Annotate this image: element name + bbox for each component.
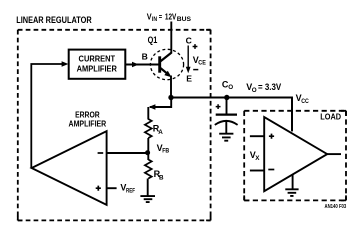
svg-text:IN: IN	[152, 16, 157, 23]
label V0 = 3.3V	[246, 82, 281, 94]
feedback tap: down from emitter node	[150, 98, 171, 108]
svg-text:B: B	[142, 52, 148, 62]
transistor Q1 base bar	[158, 56, 161, 72]
svg-text:E: E	[186, 74, 192, 84]
label RA	[153, 123, 164, 136]
wire: error amplifier output up and right to current amplifier input	[31, 64, 66, 168]
annotation plus sign (VCE)	[193, 44, 198, 49]
svg-text:LOAD: LOAD	[320, 112, 341, 122]
transistor Q1 emitter arrowhead	[164, 71, 171, 78]
ground under RB	[140, 196, 155, 202]
junction dot emitter/rail	[168, 95, 173, 100]
svg-text:AMPLIFIER: AMPLIFIER	[69, 119, 107, 129]
node VFB dot	[145, 150, 150, 155]
label VCE	[193, 55, 206, 67]
output rail to VCC corner	[171, 98, 292, 132]
svg-text:AN140 F03: AN140 F03	[325, 204, 347, 210]
svg-text:O: O	[228, 84, 233, 91]
current amplifier block	[69, 50, 126, 79]
VREF stub	[107, 187, 117, 189]
svg-text:B: B	[159, 174, 164, 181]
load box corner ticks	[244, 111, 346, 201]
wire RA to VFB node	[147, 138, 149, 154]
outer box corner ticks	[18, 30, 211, 221]
arrowhead into current amplifier	[62, 61, 69, 67]
capacitor C0 stem	[226, 98, 228, 114]
svg-text:=: =	[159, 12, 162, 22]
VCE arrow line	[187, 46, 189, 68]
transistor Q1 emitter diagonal	[160, 68, 169, 75]
wire RB to ground	[147, 179, 149, 196]
VCE arrowhead	[186, 67, 191, 74]
svg-text:LINEAR REGULATOR: LINEAR REGULATOR	[16, 15, 92, 25]
feedback tap arrowhead (points left)	[149, 104, 156, 110]
annotation minus sign (VCE)	[193, 69, 198, 71]
label VFB	[157, 143, 170, 155]
resistor RA	[145, 119, 152, 138]
load amp plus input stub	[250, 135, 264, 137]
svg-text:12V: 12V	[165, 12, 177, 22]
transistor Q1 dashed circle	[150, 49, 183, 79]
VCC wire into load amp	[291, 98, 293, 132]
error amp minus sign	[98, 152, 104, 154]
wire VFB to RB	[147, 152, 149, 160]
wire: current amplifier output to Q1 base	[125, 64, 158, 66]
linear regulator boundary (outer dashed box)	[18, 30, 211, 221]
load amp minus sign	[268, 169, 274, 171]
svg-text:BUS: BUS	[177, 16, 192, 23]
label VX	[250, 150, 261, 162]
label C0	[222, 79, 233, 91]
svg-text:O: O	[252, 87, 257, 94]
capacitor C0 curved bottom plate	[215, 121, 238, 125]
wire: VFB to error amplifier inverting input	[107, 152, 149, 154]
svg-text:CC: CC	[301, 98, 309, 105]
svg-text:A: A	[158, 129, 163, 136]
error amp plus sign	[96, 186, 101, 191]
label VCC	[296, 93, 310, 105]
svg-text:Q1: Q1	[148, 35, 158, 45]
load amp plus sign	[269, 134, 274, 139]
error amplifier triangle	[32, 131, 107, 205]
svg-text:CURRENT: CURRENT	[79, 54, 116, 64]
capacitor C0 plus sign	[216, 104, 221, 109]
wire: emitter down to output rail	[170, 76, 172, 99]
capacitor C0 lower stem	[225, 121, 227, 134]
label VIN = 12VBUS	[147, 12, 192, 24]
capacitor C0 top plate	[216, 113, 237, 115]
wire: corner down to RA	[147, 107, 149, 120]
label ERROR AMPLIFIER	[69, 109, 107, 128]
svg-text:REF: REF	[126, 187, 135, 194]
arrowhead on base wire	[132, 62, 139, 68]
svg-text:FB: FB	[162, 148, 169, 155]
junction dot C0/rail	[224, 95, 229, 100]
wire: VIN down to collector	[170, 22, 172, 54]
resistor RB	[145, 160, 152, 179]
ground under C0	[219, 134, 233, 141]
load amp output stub	[327, 153, 341, 155]
svg-text:AMPLIFIER: AMPLIFIER	[77, 63, 117, 73]
svg-text:= 3.3V: = 3.3V	[258, 82, 281, 92]
label RB	[154, 169, 164, 181]
svg-text:C: C	[186, 36, 192, 46]
transistor Q1 collector diagonal	[160, 53, 171, 62]
ground stem in load	[292, 174, 294, 189]
load amp minus input stub	[250, 170, 264, 172]
ground in load	[285, 189, 298, 196]
label VREF	[120, 183, 135, 195]
LOAD dashed box	[244, 111, 346, 201]
svg-text:CE: CE	[198, 60, 206, 67]
load amplifier triangle	[264, 117, 327, 191]
